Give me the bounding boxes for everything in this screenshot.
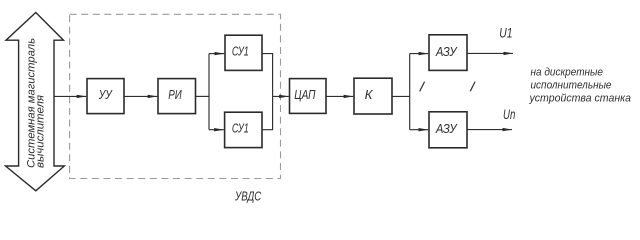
wire СУ1 bottom to merge xyxy=(262,96,273,129)
wire УУ to РИ xyxy=(124,95,157,97)
output wire Un xyxy=(467,129,512,131)
label УВДС xyxy=(234,189,262,203)
block ЦАП xyxy=(290,79,327,114)
ellipsis slash left xyxy=(420,82,425,92)
system bus label line 2 xyxy=(35,95,47,168)
wire branch to СУ1 bottom xyxy=(209,129,224,131)
svg-text:Un: Un xyxy=(503,106,515,122)
node label U1 xyxy=(499,25,512,41)
wire merge to ЦАП xyxy=(273,95,289,97)
svg-text:АЗУ: АЗУ xyxy=(435,44,458,59)
block К xyxy=(354,78,392,114)
block РИ xyxy=(158,79,196,114)
system bus label line 1 xyxy=(26,38,38,168)
wire branch to СУ1 top xyxy=(209,53,224,55)
svg-text:СУ1: СУ1 xyxy=(232,121,249,136)
node label Un xyxy=(503,106,515,122)
svg-text:вычислителя: вычислителя xyxy=(35,95,47,168)
output wire U1 xyxy=(467,52,513,54)
block СУ1 top xyxy=(225,35,262,70)
svg-text:ЦАП: ЦАП xyxy=(294,87,316,102)
svg-text:РИ: РИ xyxy=(168,87,182,102)
annotation: discrete actuators of machine tool xyxy=(529,66,631,104)
wire СУ1 top to merge xyxy=(262,54,273,97)
wire ЦАП to К xyxy=(326,95,353,97)
svg-text:на дискретные: на дискретные xyxy=(531,66,604,78)
svg-text:К: К xyxy=(365,87,374,102)
block УУ xyxy=(87,79,124,114)
wire branch to АЗУ top xyxy=(410,53,429,55)
block СУ1 bottom xyxy=(225,112,262,147)
ellipsis slash right xyxy=(470,82,475,92)
block АЗУ top xyxy=(429,35,467,71)
svg-text:УВДС: УВДС xyxy=(234,189,262,203)
svg-text:АЗУ: АЗУ xyxy=(435,121,458,136)
svg-text:устройства станка: устройства станка xyxy=(529,92,631,104)
wire РИ to branch node xyxy=(196,95,210,97)
output branch vertical wire xyxy=(409,54,411,130)
wire К to branch node xyxy=(392,95,410,97)
svg-text:исполнительные: исполнительные xyxy=(531,79,612,91)
wire bus to УУ xyxy=(54,95,86,97)
block АЗУ bottom xyxy=(429,112,467,148)
branch vertical wire xyxy=(208,54,210,130)
svg-text:УУ: УУ xyxy=(98,87,113,102)
wire branch to АЗУ bottom xyxy=(410,129,429,131)
svg-text:U1: U1 xyxy=(499,25,512,41)
svg-text:СУ1: СУ1 xyxy=(232,44,249,59)
system bus double arrow xyxy=(6,13,65,191)
dashed enclosure УВДС xyxy=(70,14,281,178)
